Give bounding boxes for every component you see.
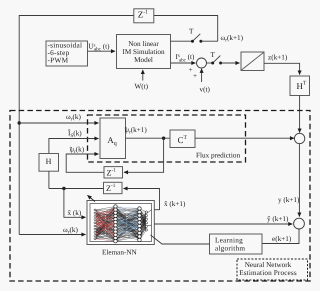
block Learning algorithm: [210, 234, 263, 254]
wire U to IM model: [88, 50, 116, 52]
wire: omega_r feedback loop (up, through top Z^-1, down left side): [19, 16, 218, 235]
wire x(k) down into NN: [64, 189, 86, 218]
wire T2 to quantizer: [221, 62, 240, 64]
svg-text:x̂ (k+1): x̂ (k+1): [164, 200, 186, 208]
summer S2: [294, 133, 304, 143]
svg-text:v(t): v(t): [200, 86, 211, 94]
block: Non linear IM Simulation Model: [117, 35, 171, 69]
svg-text:Neural Network: Neural Network: [245, 261, 292, 269]
wire x(k) into H (from junction below): [48, 171, 50, 188]
wire junction to Z^-1 #1 input: [124, 138, 164, 172]
wire x(k+1) from NN up into Z^-1 #2: [124, 189, 160, 210]
weight-update arrow at NN top-left: [88, 195, 96, 201]
block C^T: [170, 130, 195, 148]
label box Neural Network Estimation Process: [237, 259, 308, 280]
wire C^T to summer S2: [195, 137, 294, 139]
node junction psi_r(k+1): [162, 137, 165, 140]
svg-text:Model: Model: [134, 56, 153, 64]
svg-text:H: H: [46, 157, 52, 166]
Elman-NN connections and nodes: [94, 205, 152, 243]
svg-text:+: +: [189, 66, 193, 74]
svg-text:y (k+1): y (k+1): [278, 196, 300, 204]
svg-text:Flux prediction: Flux prediction: [196, 152, 241, 160]
svg-text:z(k+1): z(k+1): [268, 54, 288, 62]
wire e(k+1) from S3 to Learning algorithm: [262, 229, 299, 244]
svg-text:T: T: [211, 51, 216, 59]
inner dashed box: Flux prediction: [88, 115, 246, 162]
wire quantizer to H^T: [264, 63, 300, 74]
wire y-hat(k+1) from NN to S3: [154, 223, 292, 225]
summer S1: [197, 58, 207, 68]
svg-text:-PWM: -PWM: [48, 56, 69, 65]
input W(t) arrow: [142, 70, 144, 81]
input v(t) arrow: [201, 69, 203, 82]
wire S2 down to S3 (y(k+1)): [298, 143, 300, 217]
svg-text:Non linear: Non linear: [128, 40, 159, 48]
block H^T: [290, 76, 310, 96]
outer dashed box: Neural Network Estimation Process: [10, 111, 310, 282]
block A_q: [100, 118, 126, 159]
block H: [39, 154, 59, 172]
wire Learning algorithm to NN: [151, 235, 210, 244]
svg-text:T: T: [189, 28, 194, 36]
delay block Z^-1 #1: [104, 167, 123, 178]
sampler switch T1: [191, 34, 218, 43]
wire A_q output to C^T: [126, 137, 171, 139]
wire I_s(k) from H to A_q: [49, 139, 99, 154]
wire omega_r(k) into Elman-NN: [19, 234, 85, 236]
svg-text:W(t): W(t): [135, 83, 149, 91]
wire S1 to sampler T2: [207, 62, 213, 64]
Elman-NN block outer frame: [87, 201, 154, 245]
svg-text:+: +: [193, 72, 197, 80]
wire H^T to summer S2: [299, 96, 301, 133]
node: omega_r(k) branch junction: [18, 121, 21, 124]
wire psi_r(k) from Z^-1 to A_q: [66, 154, 104, 172]
wire I^s_abc(t) from IM to summer S1: [171, 62, 196, 64]
Elman-NN block inner frame: [90, 204, 152, 242]
source block: -sinusoidal -6-step -PWM: [46, 41, 88, 66]
svg-text:Learning: Learning: [215, 237, 243, 245]
sampler switch T2: [211, 56, 222, 65]
svg-text:IM Simulation: IM Simulation: [122, 48, 165, 56]
quantizer block: [241, 52, 264, 71]
wire omega_r(k) into A_q: [19, 122, 98, 124]
delay block Z^-1 #2: [104, 182, 123, 193]
svg-text:algorithm: algorithm: [215, 245, 245, 253]
svg-text:x̂ (k): x̂ (k): [67, 209, 82, 217]
svg-text:Estimation Process: Estimation Process: [239, 269, 297, 277]
delay block Z^-1 (top): [134, 9, 154, 23]
svg-text:Eleman-NN: Eleman-NN: [102, 249, 138, 257]
node junction x(k): [62, 187, 65, 190]
svg-text:e(k+1): e(k+1): [272, 235, 292, 243]
svg-text:ŷ (k+1): ŷ (k+1): [267, 215, 289, 223]
wire omega_r(t) from IM to sampler T1: [171, 40, 193, 42]
summer S3: [294, 218, 305, 229]
wire Z^-1 #2 output to junction and H: [49, 188, 104, 190]
